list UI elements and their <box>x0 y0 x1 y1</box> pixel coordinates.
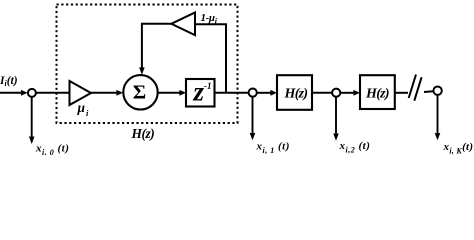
svg-text:H(z): H(z) <box>365 87 389 102</box>
wire feedback top <box>195 23 227 25</box>
node 2 <box>332 89 340 97</box>
wire amp to sigma <box>91 92 117 94</box>
wire Hz2 to break <box>395 92 408 94</box>
wire node1 to Hz1 <box>257 92 271 94</box>
wire corner down into sigma <box>141 24 143 69</box>
node 0 <box>28 89 36 97</box>
wire node2 down arrow <box>335 97 337 135</box>
node 3 <box>433 87 441 95</box>
wire feedback tap up <box>225 24 227 93</box>
wire break to node3 <box>424 90 433 93</box>
svg-text:H(z): H(z) <box>284 87 308 102</box>
block H(z) 1 <box>277 75 312 110</box>
svg-text:z: z <box>193 77 205 107</box>
wire input <box>0 92 22 94</box>
dashed box H(z) <box>57 5 238 124</box>
node 1 <box>249 89 257 97</box>
wire amp2 to corner <box>141 23 171 25</box>
wire Hz1 to node2 <box>312 92 332 94</box>
amplifier mu_i <box>70 81 92 105</box>
amplifier 1-mu_i <box>171 13 195 36</box>
wire node2 to Hz2 <box>340 92 354 94</box>
svg-text:-1: -1 <box>204 81 212 91</box>
wire node0 to amp <box>36 92 70 94</box>
wire node1 down arrow <box>252 97 254 135</box>
wire sigma to delay <box>158 92 180 94</box>
svg-text:H(z): H(z) <box>131 126 155 141</box>
block H(z) 2 <box>360 75 395 109</box>
wire delay to node1 <box>215 92 249 94</box>
wire node0 down arrow <box>31 97 33 138</box>
svg-text:Ii(t): Ii(t) <box>0 75 18 88</box>
svg-text:Σ: Σ <box>133 82 146 104</box>
break symbol <box>409 75 416 99</box>
wire node3 down arrow <box>437 95 439 135</box>
summer sigma <box>123 75 157 109</box>
delay z^-1 <box>186 79 215 107</box>
